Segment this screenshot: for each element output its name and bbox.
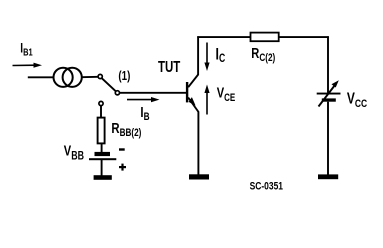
switch arm xyxy=(102,78,116,91)
label VCC xyxy=(347,89,367,111)
wire input to current source xyxy=(28,76,55,78)
wire right rail upper xyxy=(327,36,329,93)
label RBB(2) xyxy=(111,120,141,140)
label (1) xyxy=(118,70,130,84)
label minus xyxy=(119,148,125,150)
resistor RC(2) xyxy=(251,33,279,42)
label SC-0351 xyxy=(250,180,284,192)
svg-text:(1): (1) xyxy=(118,70,130,84)
svg-text:TUT: TUT xyxy=(158,59,181,76)
transistor TUT (NPN) xyxy=(186,75,199,113)
wire current source to switch xyxy=(82,76,99,78)
wire VBB to ground xyxy=(101,160,103,176)
ground right rail xyxy=(318,174,338,179)
wire right rail lower xyxy=(327,102,329,176)
wire switch to base xyxy=(120,92,187,94)
wire switch contact 2 to RBB xyxy=(100,106,102,118)
switch contact (2) xyxy=(99,101,103,105)
wire resistor to right rail xyxy=(279,36,329,38)
switch common contact xyxy=(115,91,119,95)
label TUT xyxy=(158,59,181,76)
current arrow IB xyxy=(127,97,160,102)
wire RBB to VBB xyxy=(101,143,103,152)
label IC xyxy=(216,46,226,66)
ground VBB xyxy=(94,175,112,180)
resistor RBB(2) xyxy=(98,118,105,144)
label plus xyxy=(119,164,126,171)
label VCE xyxy=(217,84,236,104)
wire collector to resistor xyxy=(197,36,251,38)
switch contact (1) xyxy=(98,74,102,78)
ground emitter xyxy=(189,174,209,179)
voltage arrow VCE xyxy=(204,85,209,115)
label RC(2) xyxy=(251,45,275,65)
current arrow IC xyxy=(204,43,209,72)
label IB xyxy=(140,103,149,123)
label VBB xyxy=(64,142,85,163)
wire emitter down xyxy=(197,112,199,177)
source VCC (variable battery) xyxy=(317,80,341,106)
svg-text:SC-0351: SC-0351 xyxy=(250,180,284,192)
current arrow IB1 xyxy=(13,63,43,68)
battery VBB xyxy=(89,152,116,160)
wire collector up xyxy=(197,36,199,75)
current source IB1 (two overlapping circles) xyxy=(54,68,82,87)
label IB1 xyxy=(20,40,32,57)
